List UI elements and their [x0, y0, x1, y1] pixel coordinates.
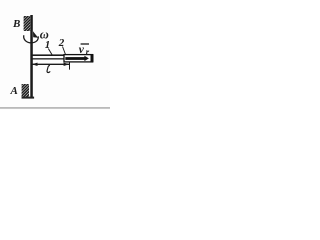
omega rotation arc [24, 35, 39, 43]
svg-text:v: v [79, 44, 85, 56]
dimension line l [32, 63, 69, 65]
wire: vertical shaft [30, 15, 33, 98]
dimension right arrowhead [64, 63, 70, 66]
svg-text:B: B [12, 18, 20, 30]
label vr with overbar [81, 43, 89, 45]
extension line at slider [69, 62, 71, 70]
leader line for 1 [48, 49, 52, 56]
bearing B hatched block [24, 16, 31, 31]
svg-text:A: A [10, 85, 18, 97]
bearing A base [22, 97, 34, 99]
label l [47, 66, 50, 73]
bearing A hatched block [22, 84, 29, 99]
dimension left arrowhead [32, 63, 38, 66]
vr arrow inside slider [65, 57, 84, 60]
svg-text:1: 1 [45, 39, 51, 51]
svg-text:2: 2 [58, 37, 65, 49]
slider right thick wall [91, 54, 94, 62]
rod 1 top line [31, 54, 65, 56]
svg-text:r: r [86, 47, 90, 57]
rod 1 bottom line [31, 58, 65, 59]
bottom rule [0, 107, 110, 108]
slider 2 body [64, 55, 93, 62]
leader line for 2 [63, 47, 66, 55]
omega arc arrowhead [33, 31, 38, 38]
